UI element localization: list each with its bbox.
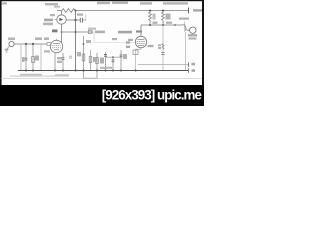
svg-text:[926x393] upic.me: [926x393] upic.me bbox=[102, 88, 202, 103]
